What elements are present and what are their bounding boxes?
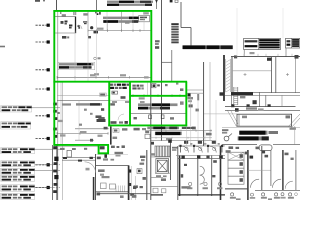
corridor dot 3: [101, 108, 104, 111]
leader diagonals right: [288, 114, 300, 128]
stall junction blobs: [179, 145, 223, 147]
text above legend: [143, 12, 149, 14]
plenum left break diagonals: [228, 110, 239, 127]
leader with arrowhead x156: [155, 0, 158, 9]
marks x140 y156: [140, 156, 146, 165]
wire highlight drop x108.8: [108, 82, 110, 127]
corridor marks y121: [111, 121, 128, 124]
wire highlight main horizontal run y81: [53, 81, 187, 83]
feeder arrow 1: [36, 24, 50, 27]
corridor device boxes: [112, 91, 118, 94]
stall door arc 3: [210, 146, 216, 152]
door arc br 1: [251, 179, 260, 188]
wall tick y112: [57, 112, 60, 114]
wire highlight drop x186: [185, 82, 187, 127]
lower wall dark fill: [231, 92, 253, 95]
table leg x286: [285, 48, 287, 57]
dim text 945: [250, 52, 255, 54]
blob x133 y186: [133, 186, 136, 189]
label block row B: [1, 122, 31, 129]
panel note line1: [138, 103, 178, 106]
room note line2 y66: [59, 66, 92, 68]
mid text x192 y127: [192, 127, 196, 130]
junction box y157: [54, 157, 58, 161]
tick pair x74: [74, 12, 77, 15]
blob x262 y151: [262, 151, 266, 154]
marks left of bar y131: [145, 131, 149, 133]
bottom texts y199: [236, 198, 272, 200]
label block row 5: [1, 185, 60, 191]
shower arc 2: [200, 175, 205, 184]
circle symbol with tail: [224, 134, 232, 141]
building top wall y56.6: [231, 56, 300, 58]
room wall x95.5: [95, 154, 97, 200]
stall partition 2: [193, 146, 195, 153]
small text y120: [58, 120, 63, 122]
blob x245 y152: [245, 152, 248, 155]
wire highlight small box left: [98, 144, 100, 154]
door arc br 3: [285, 181, 293, 189]
text x83 y21: [83, 21, 87, 24]
plenum inner left: [238, 114, 240, 126]
office blob b: [69, 25, 72, 29]
riser duct x161.5: [161, 0, 163, 141]
floor wall y194.9 left: [151, 194, 163, 196]
panel cluster x152: [152, 84, 160, 88]
top small box x175: [175, 0, 178, 2]
door hinge blob 1: [181, 156, 184, 159]
grid line v x75: [74, 31, 76, 82]
wall x247.9: [247, 150, 249, 200]
bathtub: [259, 145, 272, 151]
grid line v x96.5b: [96, 11, 98, 77]
stall header text b: [182, 127, 195, 129]
wall under green y146.6: [57, 146, 98, 148]
room split line y95.6: [57, 95, 109, 97]
tick below green x60.8: [60, 11, 61, 14]
dimension line y133.4: [57, 132, 109, 134]
device box x137 y169: [137, 169, 142, 174]
smudge y170 x98: [98, 169, 105, 172]
right schedule bar 1: [239, 131, 268, 135]
black bar y132: [155, 132, 182, 135]
duct jog horizontal y62.3: [162, 61, 172, 63]
feeder arrow 5: [36, 114, 50, 117]
dim text 450: [139, 97, 145, 99]
room wall x179.6 thick: [179, 155, 181, 196]
small note x155 y46: [155, 46, 159, 49]
faint v x147.5: [147, 83, 149, 96]
wall x295.9: [295, 150, 297, 191]
dim line y127.4: [222, 126, 300, 128]
wall x282.9: [282, 150, 284, 191]
riser junction blob 7: [54, 162, 58, 165]
door swing arc x84: [85, 162, 96, 173]
riser junction blob 6: [53, 146, 57, 149]
partition vertical x121.5: [121, 12, 123, 31]
partition x265.8: [265, 95, 267, 106]
building left wall x232: [231, 57, 233, 95]
riser junction blob 2: [53, 110, 57, 113]
device on shelf 2: [161, 115, 164, 119]
text below dim x88: [88, 36, 91, 38]
corridor h y93.2: [187, 92, 204, 94]
partition thick vertical x75.5: [75, 17, 77, 34]
text in small green box: [100, 146, 105, 149]
corridor note row2: [110, 87, 127, 89]
scatter dot c: [188, 94, 191, 97]
wall stub above corner: [56, 0, 58, 11]
plenum tail x294.8: [294, 126, 296, 145]
room cross mark 2: [286, 73, 289, 76]
dimension ticks y130.6: [151, 129, 211, 131]
grid line v x216: [215, 100, 217, 146]
thick stub x110.8: [110, 127, 112, 145]
lower wall line y92.3: [231, 91, 300, 93]
corridor plus marks: [247, 104, 271, 106]
grid line v x205: [204, 131, 206, 146]
top tick box x170: [170, 0, 173, 2]
faint h y154.6: [96, 154, 129, 156]
room wall x211.7: [211, 155, 213, 196]
partition x231.5: [231, 95, 233, 106]
partition blob x253: [253, 100, 257, 104]
stall door arc 1: [182, 146, 188, 152]
note block2 line2: [103, 20, 139, 23]
office blob a: [65, 21, 68, 25]
small note x155 y40: [155, 40, 160, 45]
wc fixture 1: [184, 141, 188, 151]
duct jog y27.5: [181, 27, 191, 29]
core line y186.7: [151, 186, 178, 188]
label block row 4: [1, 175, 35, 181]
wire highlight run y144.8: [53, 144, 109, 146]
lower wall line y95.3: [225, 94, 300, 96]
crossbar ticks: [133, 94, 180, 97]
room note line1 y63: [59, 63, 94, 65]
floor wall y190.4: [255, 189, 300, 191]
v x190.8 below: [190, 127, 192, 147]
text x115 y152: [115, 152, 124, 157]
floor extra symbol x251: [250, 193, 255, 199]
grid line v x144: [143, 11, 145, 31]
cavity wall x271.5: [271, 57, 273, 93]
stall top line y145.9: [178, 145, 225, 147]
dim text y138: [166, 138, 172, 140]
riser junction blob 10: [53, 190, 57, 193]
blob x142 y177: [143, 177, 146, 180]
corridor text y107.5: [246, 107, 257, 109]
scatter dot a: [165, 84, 168, 86]
marks y137 x113: [113, 137, 118, 139]
smudge y174 x100: [100, 174, 104, 176]
core text y178: [161, 178, 166, 181]
marks x95 y11: [95, 12, 101, 15]
text BM2: [94, 31, 99, 34]
shelf line y113.6: [131, 113, 186, 115]
partition x282: [281, 95, 283, 106]
dim texts y101: [112, 101, 145, 103]
corridor cross line y100.2: [109, 99, 130, 101]
v x186.5 below: [186, 127, 188, 147]
floor symbol 4: [288, 193, 294, 199]
wc fixture 2: [198, 141, 202, 151]
floor wall y188.9: [225, 188, 248, 190]
feeder arrow 2: [36, 40, 50, 43]
riser junction blob 8: [53, 170, 57, 173]
scatter dot b: [176, 83, 178, 85]
dark block x128 y169: [128, 169, 131, 172]
wire highlight bottom run y125.5: [108, 124, 187, 126]
schedule table 2: [286, 38, 301, 48]
wide schema bar: [182, 45, 233, 49]
long plenum rectangle: [237, 114, 292, 126]
faint v x135.5: [135, 176, 137, 200]
blob x285 y153: [285, 153, 289, 156]
marks x97 y157: [97, 157, 101, 160]
upper note row1: [132, 85, 143, 87]
stall partition 1: [179, 146, 181, 153]
text under wall: [240, 96, 245, 98]
floor wall y194.9 right: [178, 194, 225, 196]
marks right of green: [188, 97, 194, 102]
grid line h y50 left: [0, 46, 5, 48]
room blobs a: [181, 160, 217, 177]
door arc br 2: [273, 179, 282, 188]
dim text y74 b: [120, 74, 126, 76]
lift shaft inner with X: [157, 160, 167, 171]
dim text 750: [80, 131, 87, 133]
floor extra symbol x282: [280, 193, 285, 199]
dark block x128 y183: [128, 183, 131, 186]
stall noise marks: [190, 143, 220, 145]
wire highlight left riser: [53, 10, 55, 146]
core line y156.9: [151, 156, 171, 158]
floor symbol 3: [274, 193, 280, 199]
long wall x150.8: [150, 82, 152, 200]
service line x62.5: [62, 82, 64, 201]
grid line h y128.8: [75, 128, 109, 130]
dimension line y137.8: [150, 137, 212, 139]
blob below green box: [104, 154, 107, 158]
grid line v x133: [132, 11, 134, 31]
dimension ticks y77.3: [57, 76, 151, 79]
v x190.8 mid: [190, 96, 192, 126]
dimension line y140.6: [150, 140, 212, 142]
mid text x206 y133: [206, 133, 212, 136]
wall blob x220 y92: [220, 92, 224, 95]
text block x180 y101: [180, 101, 184, 104]
grid line h y100 centre: [57, 99, 109, 101]
text y128 x122: [122, 128, 127, 130]
legend box: [139, 15, 150, 21]
leader text right: [290, 128, 296, 130]
door hinge blob 3: [206, 156, 209, 159]
feeder arrow 4: [36, 87, 50, 90]
core text y153: [151, 153, 155, 155]
office text 92: [61, 21, 64, 24]
core wall x170.5: [170, 141, 172, 180]
faint v x131.2: [130, 166, 132, 200]
blob y55 x295: [295, 55, 299, 59]
junction box y175: [54, 175, 58, 179]
corridor dark dashes: [63, 157, 93, 162]
thick wall x128.6: [128, 166, 130, 200]
text below dim x62: [62, 36, 69, 39]
floor line y144.6 b: [273, 144, 300, 146]
hatch ladder 2: [234, 87, 238, 105]
left small box y134: [145, 134, 150, 138]
room note box: [58, 62, 95, 69]
floor texts mid: [187, 187, 222, 189]
floor extra symbol x296: [295, 193, 298, 196]
box texture y158: [103, 158, 114, 160]
corridor text left: [100, 93, 107, 96]
label block row 6: [1, 193, 35, 199]
mark y134 left: [60, 134, 66, 136]
text block x180 y88: [180, 88, 183, 91]
corridor line y160.2: [62, 159, 96, 161]
panel note line2: [138, 107, 170, 110]
label block row 1: [1, 148, 60, 154]
small text x125 y21: [125, 21, 130, 23]
hatched shaft strip: [226, 59, 231, 92]
feeder arrow 3: [36, 68, 50, 71]
duct x171.8: [171, 50, 173, 82]
riser junction blob 5: [54, 135, 58, 138]
dim text x94 y73: [94, 73, 99, 75]
marks y127 x104: [104, 127, 108, 130]
centre dots q3: [79, 109, 93, 126]
right schedule bar 2: [238, 136, 269, 140]
dimension ticks y133.4: [57, 132, 108, 135]
blob y57 x267: [267, 58, 272, 61]
stall partition 4: [221, 146, 223, 153]
green room inner marks: [134, 128, 147, 131]
blob x265 y155: [265, 155, 269, 158]
small text y103 x62: [62, 103, 71, 105]
door marks right of partition: [78, 25, 83, 29]
floor symbol 1: [230, 193, 236, 199]
grid line v x283: [282, 8, 284, 38]
blob y55 x234: [234, 55, 237, 58]
blob x196 y109: [196, 109, 199, 112]
wall line x52.5: [52, 145, 54, 200]
grid line v x88: [87, 11, 89, 81]
dimension line y30.5: [88, 30, 151, 32]
dim text 764 x144: [144, 76, 149, 78]
door knob circle: [90, 26, 93, 29]
core blob y140: [168, 140, 172, 143]
core wall x177.8: [177, 146, 179, 200]
wire highlight top run: [53, 10, 151, 12]
wall stub x96.5: [96, 0, 98, 11]
duct wall x146.8: [146, 150, 148, 200]
wire highlight drop x129.7: [129, 82, 131, 127]
stair tick column: [172, 147, 177, 151]
note block line1 (top): [107, 1, 153, 3]
mark y134 right: [98, 135, 103, 137]
corridor dot 2: [110, 103, 115, 105]
wire highlight right riser x151: [150, 10, 152, 83]
room wall x197.8: [197, 155, 199, 196]
blob x256 y147: [256, 147, 260, 150]
C mark above note: [94, 57, 101, 60]
dashed service x61: [60, 82, 62, 144]
room text row y187: [181, 186, 190, 188]
rotated dim text x198: [197, 94, 199, 100]
rooms top y155.4: [176, 154, 225, 156]
grid line v x198: [197, 100, 199, 141]
marks y195: [120, 195, 136, 198]
wall x270.9: [270, 150, 272, 186]
door hinge blob 2: [197, 155, 200, 158]
riser junction blob 9: [54, 183, 58, 186]
corridor h y90: [187, 89, 204, 91]
core texture y176: [156, 175, 167, 177]
dim text y74 a: [90, 74, 96, 76]
floor symbol 2: [261, 193, 267, 199]
duct x191: [190, 28, 192, 47]
room1 inner wall y70.8: [232, 70, 272, 72]
core line y173.2: [155, 172, 171, 174]
core line y177.4: [151, 176, 163, 178]
table leg x244: [243, 50, 245, 57]
wall chunk x224: [223, 55, 225, 101]
corridor note row1: [110, 84, 130, 86]
wall x261.8: [261, 146, 263, 190]
centre text y103: [76, 103, 102, 105]
plenum marks left: [242, 116, 247, 119]
smudge y192 x97: [97, 193, 101, 196]
dim vertical x88: [87, 11, 89, 36]
dots lower: [134, 117, 175, 120]
riser junction blob 4: [53, 128, 57, 131]
door hinge blob 4: [219, 155, 223, 158]
feeder arrow 8: [36, 186, 50, 189]
wire highlight crossbar y95.5: [129, 95, 187, 97]
pillar box: [67, 150, 71, 157]
marks right of green box: [111, 145, 125, 148]
right schedule bar 1 tail: [269, 131, 279, 134]
dimension ticks y137.8: [156, 137, 204, 139]
lift shaft outer: [156, 159, 169, 174]
dim text 774: [62, 14, 66, 16]
schedule table 1: [244, 38, 281, 49]
dim vertical x210: [209, 62, 211, 140]
upper note row2: [132, 87, 143, 89]
text x97 y27.5: [97, 28, 104, 30]
corridor dot 1: [121, 96, 126, 99]
floor line y193.7: [100, 193, 150, 195]
top marks x226: [226, 150, 231, 153]
room box inner marks: [101, 176, 116, 189]
smudge y186 x134: [134, 185, 143, 188]
device on shelf 1: [149, 115, 152, 119]
stall door arc 2: [196, 146, 202, 152]
corridor line y157.6: [62, 157, 96, 159]
wall line x56.9 lower: [56, 145, 58, 200]
shower arc 1: [200, 166, 205, 175]
room wall x220.5 thick: [220, 146, 222, 200]
cavity wall x275.8: [275, 57, 277, 93]
staircase with treads: [155, 146, 170, 157]
note stub x107.5: [107, 23, 109, 30]
corridor wall y106.6: [225, 106, 296, 108]
note block2 line1: [103, 17, 139, 20]
grid line v x107: [106, 11, 108, 31]
plenum marks right: [286, 115, 291, 118]
